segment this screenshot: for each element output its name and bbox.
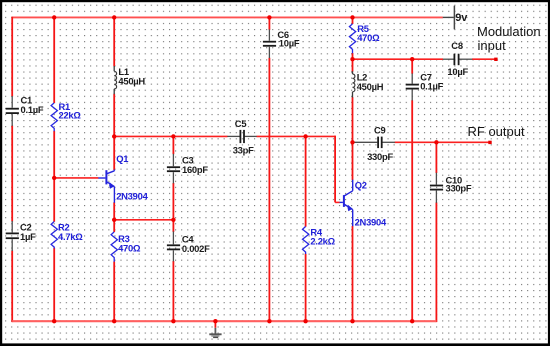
svg-text:22kΩ: 22kΩ [59, 109, 82, 120]
capacitor C7 0.1uF [406, 72, 444, 101]
wire Q2 base stub y=202.4 [335, 201, 340, 203]
transistor Q1 2N3904 [98, 170, 114, 203]
svg-text:Q2: Q2 [355, 179, 367, 190]
wire bottom rail y=321.2 [12, 320, 436, 322]
wire mid rail y=136.4 (tank feedback) [114, 135, 227, 137]
capacitor C2 [6, 221, 36, 251]
svg-text:470Ω: 470Ω [357, 32, 380, 43]
resistor R4 2.2k [303, 227, 336, 255]
node 9v supply terminal [443, 6, 469, 30]
resistor R2 4.7k [51, 222, 83, 249]
svg-text:C8: C8 [451, 40, 463, 51]
svg-text:470Ω: 470Ω [118, 243, 141, 254]
wire feedback drop x=335.1 [334, 136, 336, 203]
svg-text:2N3904: 2N3904 [355, 216, 387, 227]
svg-text:0.1µF: 0.1µF [21, 104, 44, 115]
inductor L1 450uH [114, 66, 145, 94]
svg-text:4.7kΩ: 4.7kΩ [58, 231, 83, 242]
resistor R1 22k [51, 101, 81, 131]
wire C6 column x=269.4 [268, 17, 270, 323]
svg-text:RF output: RF output [468, 124, 525, 139]
capacitor C8 10uF (series) [443, 40, 473, 77]
svg-text:1µF: 1µF [20, 231, 36, 242]
wire R5/L2/Q2 column x=352.5 [352, 17, 354, 323]
svg-text:9v: 9v [455, 12, 468, 24]
capacitor C1 [6, 94, 44, 126]
svg-text:C5: C5 [235, 118, 247, 129]
svg-text:0.002F: 0.002F [182, 243, 210, 254]
node modulation input terminal [494, 58, 497, 61]
wire L1/Q1 column x=114.2 [113, 17, 115, 323]
junction dots (wire nodes) [52, 15, 439, 323]
wire Q1 base from R divider [54, 177, 98, 179]
wire R column x=54.2 [53, 17, 55, 323]
wire C3/C4 column x=173.4 [172, 136, 174, 323]
svg-text:10µF: 10µF [447, 66, 468, 77]
svg-text:330pF: 330pF [446, 183, 472, 194]
capacitor C4 0.002F [167, 231, 210, 261]
wire C10 column x=436.4 [435, 142, 437, 323]
transistor Q2 2N3904 [340, 180, 353, 227]
capacitor C6 10uF [263, 29, 300, 58]
resistor R3 470 [111, 232, 141, 262]
svg-text:input: input [478, 38, 507, 53]
svg-text:450µH: 450µH [118, 75, 145, 86]
wire C7 column x=412.2 [411, 58, 413, 322]
svg-text:33pF: 33pF [233, 144, 254, 155]
svg-text:2.2kΩ: 2.2kΩ [310, 235, 335, 246]
svg-text:C9: C9 [374, 125, 386, 136]
wire supply rail y=59.2 [353, 58, 444, 60]
svg-text:10µF: 10µF [279, 38, 300, 49]
wire RF rail y=142.3 [395, 141, 490, 143]
svg-text:Q1: Q1 [116, 153, 128, 164]
wire R4 column x=305.6 [305, 136, 307, 323]
ground [209, 321, 221, 337]
capacitor C5 33pF (series) [227, 118, 256, 155]
wire Q1 emitter rail y=219.8 [114, 219, 173, 221]
capacitor C3 160pF [167, 154, 208, 184]
svg-text:330pF: 330pF [367, 151, 393, 162]
svg-text:0.1µF: 0.1µF [420, 80, 443, 91]
capacitor C10 330pF [430, 173, 472, 203]
capacitor C9 330pF (series) [353, 125, 395, 162]
svg-text:160pF: 160pF [182, 164, 208, 175]
svg-text:450µH: 450µH [357, 81, 384, 92]
wire left column x=12.2 (through C1,C2) [11, 17, 13, 323]
svg-text:2N3904: 2N3904 [116, 191, 148, 202]
inductor L2 450uH [353, 71, 384, 97]
resistor R5 470 [349, 23, 380, 53]
svg-text:Modulation: Modulation [477, 24, 541, 39]
wire top rail y=17.4 [12, 16, 443, 18]
node RF output terminal [488, 141, 491, 144]
